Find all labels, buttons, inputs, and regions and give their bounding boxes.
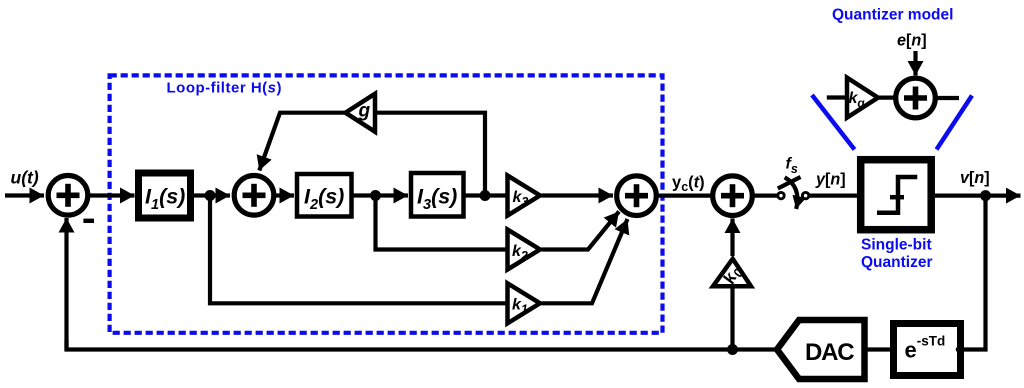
summing junction S3 (617, 176, 657, 216)
wire k2 to S3 (542, 212, 620, 250)
wire k0 into S4 (730, 219, 734, 257)
wire S3 to S4 (658, 194, 711, 198)
integrator I1(s) (139, 173, 191, 218)
amplifier k2 (508, 230, 541, 270)
wire kq to S5 (878, 95, 896, 99)
wire DAC to delay (865, 347, 891, 351)
wire I2 to I3 (352, 193, 409, 197)
wire stub left of kq (827, 95, 845, 99)
svg-text:DAC: DAC (805, 339, 854, 366)
wire k3 to S3 (542, 193, 614, 197)
svg-text:Quantizer model: Quantizer model (832, 7, 953, 24)
integrator I3(s) (411, 173, 464, 217)
minus sign at S1 (83, 219, 94, 223)
wire g feedback right segment (375, 113, 485, 196)
blue callout line left (812, 95, 855, 150)
node after I1 (205, 190, 216, 201)
node after I3 (480, 190, 491, 201)
node after I2 (370, 190, 381, 201)
quantizer block (861, 160, 932, 230)
feedback wire bottom (67, 340, 778, 350)
wire I1 to S2 (194, 193, 230, 197)
amplifier k3 (508, 176, 541, 216)
integrator I2(s) (297, 174, 352, 217)
wire S2 to I2 (275, 193, 294, 197)
wire to k2 (376, 196, 508, 250)
wire S1 to I1 (89, 193, 135, 197)
summing junction S5 (896, 78, 936, 118)
svg-text:fs: fs (786, 156, 798, 177)
quantizer glyph (877, 177, 917, 213)
svg-text:Single-bit: Single-bit (861, 237, 932, 254)
node v[n] (980, 190, 991, 201)
wire g feedback left segment with arrow into S2 (259, 113, 345, 171)
amplifier kq (847, 78, 878, 118)
wire I3 to k3 (464, 193, 508, 197)
loop filter boundary (dashed) (110, 75, 663, 332)
svg-text:e[n]: e[n] (897, 32, 927, 50)
blue callout line right (937, 96, 973, 150)
wire e[n] into S5 (913, 51, 917, 76)
wire input (5, 193, 44, 197)
svg-text:u(t): u(t) (11, 167, 39, 187)
amplifier g (345, 94, 375, 132)
svg-text:Quantizer: Quantizer (861, 254, 932, 271)
svg-text:y[n]: y[n] (815, 171, 846, 189)
wire v[n] to delay (964, 196, 986, 350)
wire k0 down (730, 286, 734, 349)
wire stub right of S5 (938, 96, 960, 100)
wire feedback into S1 (64, 218, 68, 350)
wire S4 to switch (754, 194, 777, 198)
svg-text:g: g (358, 101, 371, 122)
wire k1 to S3 (542, 219, 628, 303)
svg-text:Loop-filter H(s): Loop-filter H(s) (167, 80, 283, 97)
summing junction S1 (48, 176, 88, 216)
amplifier k1 (508, 283, 541, 323)
wire quantizer output (935, 194, 1021, 198)
node on feedback line (727, 344, 738, 355)
junction bump at delay box (956, 347, 962, 353)
summing junction S2 (234, 176, 274, 216)
svg-text:yc(t): yc(t) (672, 173, 705, 194)
sampling switch fs (778, 192, 784, 198)
DAC block (777, 320, 865, 379)
wire to k1 (210, 196, 507, 304)
summing junction S4 (713, 176, 753, 216)
delay block e^-sTd (894, 324, 961, 376)
amplifier k0 (713, 259, 751, 286)
svg-text:v[n]: v[n] (960, 169, 990, 187)
wire switch to quantizer (809, 194, 857, 198)
